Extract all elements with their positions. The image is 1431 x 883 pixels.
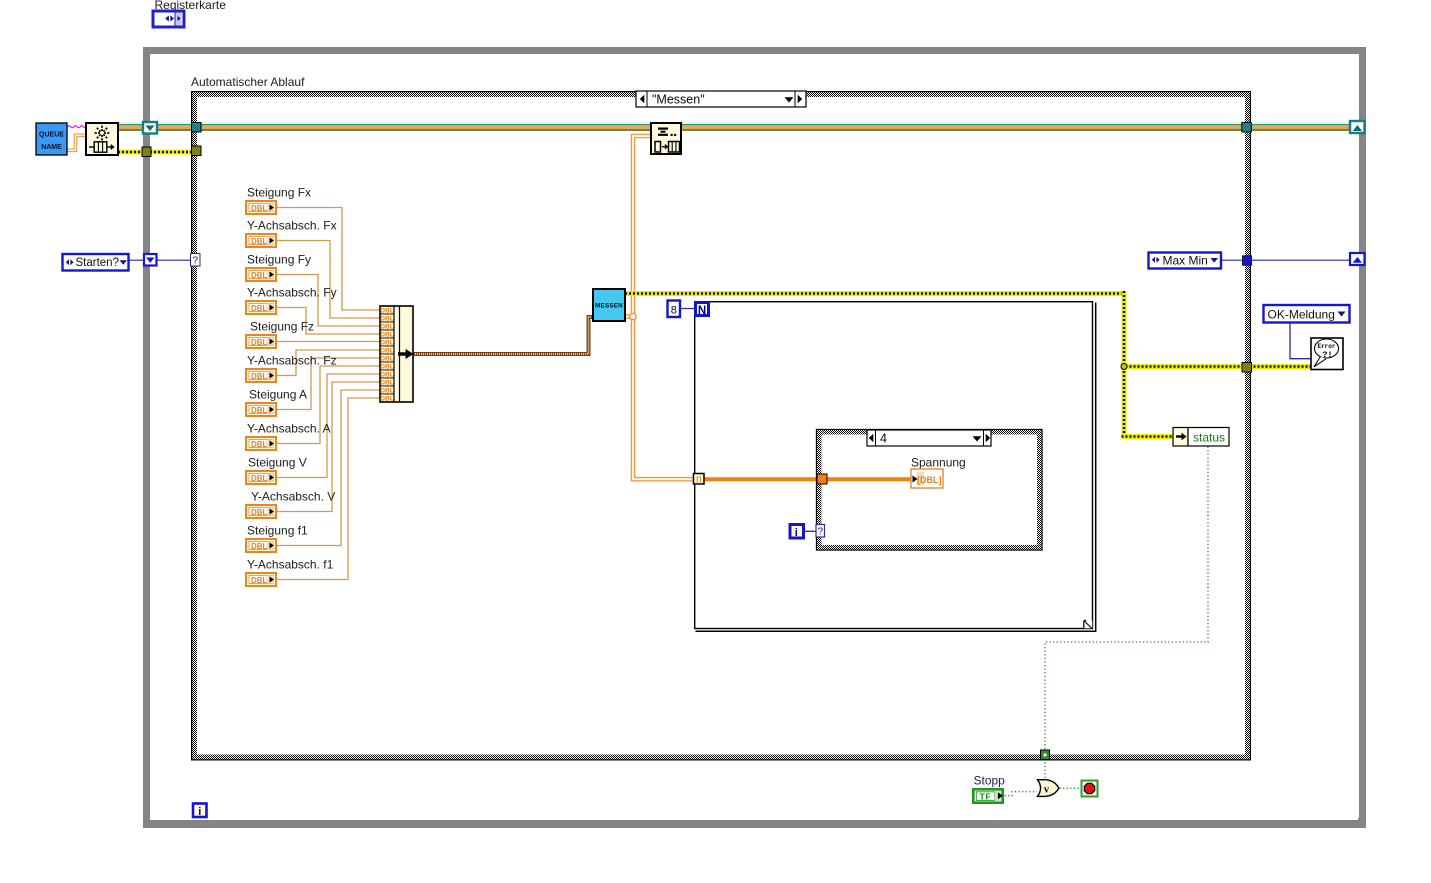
shift register right queue <box>1350 121 1365 133</box>
enum constant Starten? <box>63 254 129 271</box>
svg-text:4: 4 <box>880 432 887 446</box>
junction array wire <box>630 313 636 319</box>
svg-text:Y-Achsabsch. Fz: Y-Achsabsch. Fz <box>247 354 337 368</box>
wire Y-Achsabsch. Fx to bundle <box>277 241 380 319</box>
tunnel boolean on case bottom <box>1041 750 1050 760</box>
subVI MESSEN <box>593 289 625 321</box>
wire boolean or to stop terminal <box>1060 787 1082 789</box>
wire boolean stopp to or <box>1005 792 1038 796</box>
tunnel queue on case left <box>192 123 202 133</box>
wire queue refnum horizontal <box>118 122 1358 131</box>
shift register right enum <box>1350 253 1365 265</box>
wire Y-Achsabsch. f1 to bundle <box>277 398 380 580</box>
svg-text:?: ? <box>193 256 199 267</box>
wire solid orange to Spannung <box>704 477 911 481</box>
terminal N for loop <box>696 303 709 318</box>
terminal tab control <box>153 11 184 27</box>
function Obtain Queue <box>86 123 118 155</box>
wire error to status <box>1122 434 1175 439</box>
control Y-Achsabsch. Fz <box>245 354 337 384</box>
terminal i inner case <box>790 525 804 540</box>
svg-text:DBL: DBL <box>380 372 394 379</box>
svg-text:[DBL]: [DBL] <box>917 475 942 485</box>
wire Y-Achsabsch. A to bundle <box>277 366 380 444</box>
svg-text:DBL: DBL <box>380 380 394 387</box>
svg-text:DBL: DBL <box>251 440 268 449</box>
wire Y-Achsabsch. Fy to bundle <box>277 308 380 335</box>
selector terminal ? outer case <box>191 254 201 267</box>
svg-text:DBL: DBL <box>251 271 268 280</box>
case structure Automatischer Ablauf border <box>192 92 1251 760</box>
svg-text:status: status <box>1193 431 1225 445</box>
control Y-Achsabsch. V <box>245 490 335 520</box>
constant 8 <box>668 301 681 318</box>
svg-text:DBL: DBL <box>380 356 394 363</box>
svg-text:Steigung f1: Steigung f1 <box>247 524 308 538</box>
svg-text:DBL: DBL <box>380 316 394 323</box>
wire enum Max Min to shift register <box>1222 259 1349 261</box>
svg-text:DBL: DBL <box>380 388 394 395</box>
svg-text:DBL: DBL <box>251 474 268 483</box>
svg-text:DBL: DBL <box>251 576 268 585</box>
tunnel error on case right <box>1242 363 1252 373</box>
svg-text:DBL: DBL <box>251 372 268 381</box>
svg-text:DBL: DBL <box>251 338 268 347</box>
shift register left enum <box>144 254 157 266</box>
svg-text:Spannung: Spannung <box>911 456 966 470</box>
wire 1D array DBL vertical <box>625 136 694 479</box>
svg-text:Steigung Fz: Steigung Fz <box>250 320 314 334</box>
control Y-Achsabsch. Fx <box>245 219 337 249</box>
svg-text:MESSEN: MESSEN <box>595 302 623 309</box>
svg-text:DBL: DBL <box>251 304 268 313</box>
selector label 4 <box>867 430 991 446</box>
indicator Spannung DBL array <box>911 469 943 488</box>
svg-text:v: v <box>1044 784 1050 795</box>
svg-text:DBL: DBL <box>380 348 394 355</box>
svg-text:DBL: DBL <box>380 364 394 371</box>
wire Steigung A to bundle <box>277 358 380 410</box>
svg-text:Y-Achsabsch. Fy: Y-Achsabsch. Fy <box>247 286 337 300</box>
svg-text:Y-Achsabsch. f1: Y-Achsabsch. f1 <box>247 558 334 572</box>
wire 8 to N <box>680 308 694 310</box>
terminal loop condition stop <box>1082 781 1098 797</box>
control Steigung V <box>245 456 307 486</box>
indicator status unbundle <box>1173 428 1229 447</box>
tunnel enum on case right <box>1243 256 1252 265</box>
selector terminal ? inner case <box>816 525 825 538</box>
control Y-Achsabsch. A <box>245 422 331 452</box>
svg-text:DBL: DBL <box>380 332 394 339</box>
enum constant Max Min <box>1149 253 1222 269</box>
svg-text:Error: Error <box>1317 343 1335 350</box>
svg-text:DBL: DBL <box>251 542 268 551</box>
wire Steigung Fx to bundle <box>277 208 380 311</box>
svg-text:?!: ?! <box>1322 350 1332 360</box>
wire Steigung f1 to bundle <box>277 390 380 546</box>
svg-text:DBL: DBL <box>380 324 394 331</box>
svg-text:Starten?: Starten? <box>76 257 119 269</box>
gate OR <box>1038 780 1059 797</box>
wire Y-Achsabsch. V to bundle <box>277 382 380 512</box>
wire error vertical down <box>1122 291 1127 439</box>
svg-text:[]: [] <box>696 475 701 484</box>
svg-text:Steigung A: Steigung A <box>249 388 307 402</box>
svg-text:i: i <box>795 527 798 539</box>
svg-text:NAME: NAME <box>41 144 62 151</box>
svg-text:DBL: DBL <box>380 308 394 315</box>
svg-text:Stopp: Stopp <box>974 774 1006 788</box>
wire error out of MESSEN <box>625 291 1127 296</box>
wire cluster brown <box>413 317 593 354</box>
junction error wire <box>1121 364 1127 370</box>
tunnel auto-index for loop <box>694 474 705 485</box>
svg-text:OK-Meldung: OK-Meldung <box>1268 308 1335 322</box>
svg-text:DBL: DBL <box>380 396 394 403</box>
subVI error dialog <box>1311 338 1343 370</box>
node bundle <box>380 306 414 403</box>
wire string pink squiggle <box>68 126 87 128</box>
wire boolean green dotted status chain <box>1045 447 1208 780</box>
wires DBL controls to bundle <box>277 208 380 580</box>
svg-text:?: ? <box>818 527 824 538</box>
svg-text:Y-Achsabsch. V: Y-Achsabsch. V <box>251 490 335 504</box>
svg-text:DBL: DBL <box>251 204 268 213</box>
svg-text:Steigung V: Steigung V <box>248 456 307 470</box>
svg-text:DBL: DBL <box>251 406 268 415</box>
tunnel queue on case right <box>1242 123 1252 133</box>
function Flush Queue <box>651 123 681 154</box>
wire Steigung Fz to bundle <box>277 341 380 343</box>
svg-text:Y-Achsabsch. Fx: Y-Achsabsch. Fx <box>247 219 337 233</box>
svg-text:QUEUE: QUEUE <box>39 132 64 139</box>
control Stopp TF <box>973 789 1003 802</box>
constant QUEUE NAME <box>36 123 67 155</box>
selector label Messen <box>636 91 806 107</box>
wire Y-Achsabsch. Fz to bundle <box>277 350 380 376</box>
svg-text:Y-Achsabsch. A: Y-Achsabsch. A <box>247 422 331 436</box>
svg-text:Automatischer Ablauf: Automatischer Ablauf <box>191 75 305 89</box>
svg-text:DBL: DBL <box>251 237 268 246</box>
for loop <box>695 302 1096 632</box>
wire OK-Meldung to error dialog <box>1290 323 1311 359</box>
wire error to dialog <box>1122 364 1312 369</box>
wire Steigung Fy to bundle <box>277 275 380 327</box>
control Y-Achsabsch. f1 <box>245 558 334 588</box>
svg-text:"Messen": "Messen" <box>652 93 705 107</box>
svg-text:i: i <box>198 806 201 818</box>
svg-text:Steigung Fy: Steigung Fy <box>247 253 311 267</box>
wire orange elbow queue name <box>68 135 87 150</box>
svg-text:Steigung Fx: Steigung Fx <box>247 186 311 200</box>
control Steigung Fy <box>245 253 311 283</box>
tunnel error on case left <box>192 146 202 156</box>
terminal i while loop <box>193 804 207 819</box>
enum constant OK-Meldung <box>1264 305 1350 323</box>
svg-text:N: N <box>698 305 706 317</box>
tunnel orange on inner case <box>817 474 827 484</box>
svg-text:TF: TF <box>980 792 992 802</box>
case structure inner 4 border <box>816 429 1042 550</box>
control Steigung Fx <box>245 186 311 216</box>
control Steigung f1 <box>245 524 308 554</box>
control Steigung A <box>245 388 307 418</box>
wire enum blue left <box>129 259 190 261</box>
svg-text:DBL: DBL <box>380 340 394 347</box>
svg-text:Max Min: Max Min <box>1163 254 1208 268</box>
wire error in from Obtain Queue <box>118 150 192 155</box>
svg-text:8: 8 <box>671 305 677 317</box>
shift register left queue <box>143 122 157 134</box>
wire Steigung V to bundle <box>277 374 380 478</box>
tunnel error on loop border <box>142 147 151 157</box>
control Y-Achsabsch. Fy <box>245 286 337 316</box>
svg-text:DBL: DBL <box>251 508 268 517</box>
wire i to selector tunnel <box>804 530 817 532</box>
control Steigung Fz <box>245 320 314 350</box>
while loop border <box>143 47 1366 828</box>
